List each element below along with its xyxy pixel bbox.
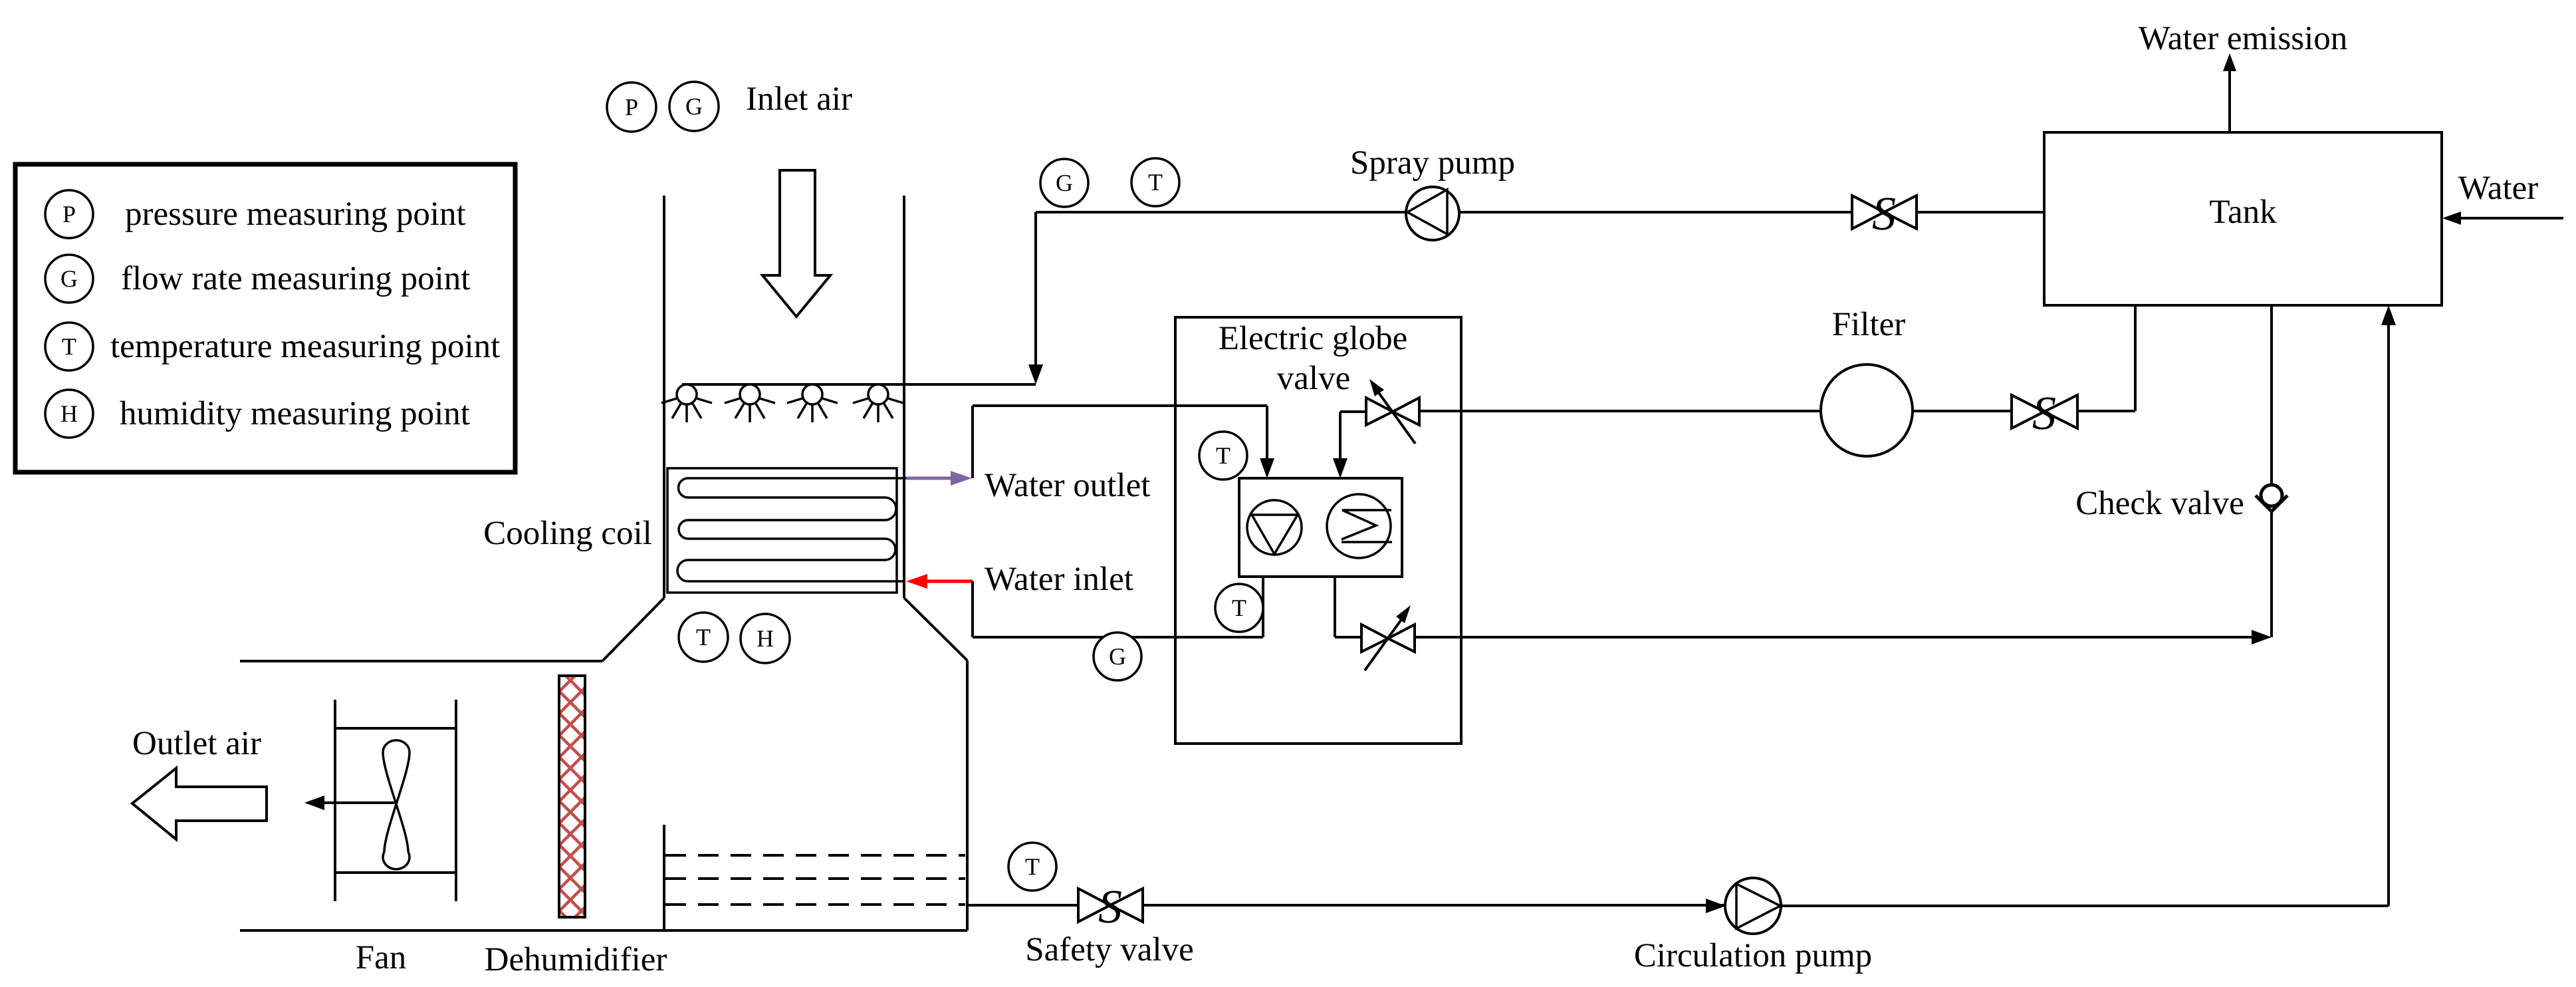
basin water dashed line 3 (665, 903, 965, 906)
svg-text:Inlet air: Inlet air (746, 80, 852, 118)
svg-text:pressure measuring point: pressure measuring point (125, 196, 466, 233)
svg-text:Outlet air: Outlet air (132, 725, 261, 762)
measuring point T electric lower (1215, 584, 1263, 632)
duct right wall (903, 196, 905, 598)
valve electric upper (bowtie with arrow) (1366, 398, 1419, 425)
pipe upper valve to actuator (1340, 410, 1366, 413)
measuring point G coil inlet (1094, 633, 1141, 680)
svg-text:humidity measuring point: humidity measuring point (120, 395, 470, 432)
svg-text:Check valve: Check valve (2075, 485, 2244, 522)
svg-text:G: G (685, 93, 703, 120)
spray nozzle 1 (661, 384, 712, 422)
svg-text:Water: Water (2458, 170, 2538, 207)
check valve (2261, 485, 2282, 506)
duct left wall (663, 196, 665, 598)
circulation pump (1725, 878, 1781, 934)
basin water dashed line 2 (665, 877, 965, 880)
legend P circle (45, 190, 93, 238)
basin right wall (966, 660, 969, 930)
measuring point G spray line (1040, 159, 1088, 207)
measuring point T electric upper (1199, 432, 1247, 480)
check valve line (2270, 305, 2273, 485)
filter (1821, 364, 1913, 456)
pipe water outlet riser (971, 406, 974, 478)
svg-text:G: G (1109, 643, 1126, 670)
measuring point H duct (741, 614, 790, 663)
cooling coil serpentine (677, 478, 906, 581)
svg-text:G: G (60, 265, 78, 292)
svg-text:Electric globe: Electric globe (1219, 320, 1408, 357)
svg-text:T: T (1025, 853, 1040, 880)
water outlet arrow (purple) (906, 471, 972, 486)
fan frame (335, 700, 456, 901)
svg-text:H: H (60, 400, 78, 427)
pipe spray feed down (1034, 212, 1037, 368)
pipe safety valve to circulation pump (1143, 904, 1725, 907)
svg-text:H: H (757, 625, 774, 652)
svg-text:T: T (1148, 169, 1163, 196)
spray nozzle 2 (725, 384, 775, 422)
spray nozzle 4 (853, 384, 903, 422)
water supply arrow (2460, 217, 2563, 219)
valve tank drain (S) (2012, 395, 2077, 428)
svg-text:valve: valve (1277, 360, 1350, 397)
svg-text:Tank: Tank (2209, 194, 2277, 231)
svg-text:flow rate measuring point: flow rate measuring point (121, 260, 470, 297)
legend H circle (45, 390, 93, 438)
measuring point T duct (679, 613, 728, 662)
svg-text:S: S (1098, 880, 1122, 933)
actuator sigma circle (1327, 494, 1391, 558)
svg-text:T: T (1216, 442, 1230, 469)
actuator pump circle (1247, 500, 1302, 555)
cooling coil box (667, 468, 897, 593)
svg-text:Water emission: Water emission (2139, 20, 2348, 57)
duct left slope (602, 598, 664, 661)
svg-text:G: G (1056, 170, 1073, 196)
valve spray line (S) (1852, 196, 1917, 229)
spray pipe (682, 383, 1036, 386)
svg-text:P: P (625, 94, 638, 120)
safety valve (S) (1078, 889, 1143, 922)
duct right slope (904, 598, 967, 660)
pipe actuator to coil inlet (1262, 577, 1264, 637)
outlet duct top line (240, 660, 602, 662)
basin left wall (663, 825, 665, 930)
svg-text:Water outlet: Water outlet (985, 467, 1150, 504)
pipe water outlet to actuator (973, 404, 1267, 407)
svg-text:Fan: Fan (356, 939, 407, 976)
measuring point P top (607, 82, 656, 132)
tank (2044, 132, 2442, 305)
svg-text:Safety valve: Safety valve (1025, 931, 1193, 968)
inlet air big arrow (762, 170, 830, 317)
pipe basin to safety valve (967, 904, 1078, 907)
electric globe valve box (1175, 317, 1461, 744)
svg-text:T: T (696, 624, 711, 650)
svg-text:T: T (62, 333, 76, 360)
bottom duct line (240, 929, 967, 932)
svg-text:T: T (1232, 595, 1246, 621)
pipe actuator return (1334, 577, 1336, 637)
measuring point T safety (1008, 843, 1056, 891)
svg-text:Water inlet: Water inlet (985, 561, 1133, 598)
svg-text:Dehumidifier: Dehumidifier (485, 941, 667, 978)
spray nozzle 3 (787, 384, 838, 422)
fan outlet arrow (314, 801, 396, 804)
water emission arrow (2228, 70, 2231, 132)
basin water dashed line 1 (665, 854, 965, 857)
legend T circle (45, 323, 93, 370)
water inlet arrow (red) (906, 574, 973, 589)
measuring point G top (669, 82, 719, 131)
legend G circle (45, 255, 93, 303)
legend box (15, 164, 515, 472)
measuring point T spray line (1131, 158, 1179, 206)
svg-text:S: S (1872, 187, 1896, 240)
outlet air big arrow (132, 768, 267, 839)
svg-text:Spray pump: Spray pump (1350, 144, 1515, 182)
spray pump (1406, 187, 1459, 240)
fan blade (383, 740, 410, 869)
pipe circulation pump to tank (1781, 905, 2389, 907)
actuator inner box (1239, 478, 1402, 577)
svg-text:S: S (2032, 386, 2056, 440)
valve electric lower (bowtie with arrow) (1361, 625, 1415, 652)
svg-text:P: P (62, 201, 76, 227)
pipe tank drain to filter (2134, 305, 2137, 411)
svg-text:Cooling coil: Cooling coil (483, 515, 652, 552)
svg-text:Circulation pump: Circulation pump (1634, 937, 1872, 974)
svg-text:Filter: Filter (1832, 306, 1906, 343)
pipe filter to electric valve (1419, 410, 1821, 412)
pipe tank to spray pump (1036, 211, 1852, 213)
pipe return to tank riser (1415, 636, 2256, 638)
svg-text:temperature measuring point: temperature measuring point (110, 328, 500, 365)
